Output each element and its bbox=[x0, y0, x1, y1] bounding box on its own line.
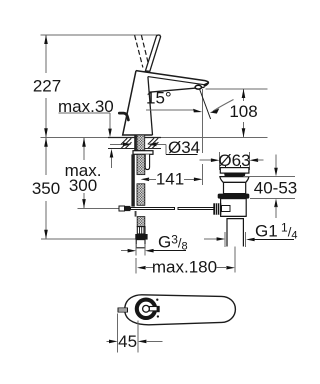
plug dark seal band bbox=[224, 173, 246, 177]
wire: 15° stream line bbox=[200, 89, 211, 119]
dimension hole Ø34 arrows at counter bbox=[110, 143, 125, 145]
svg-text:300: 300 bbox=[69, 176, 97, 195]
svg-text:G1 1/4: G1 1/4 bbox=[255, 221, 297, 242]
svg-text:227: 227 bbox=[33, 77, 61, 96]
dimension 227 vertical line bbox=[45, 35, 47, 138]
hub dots bbox=[156, 299, 158, 301]
svg-text:350: 350 bbox=[32, 179, 60, 198]
drain lower body bbox=[221, 199, 247, 217]
dimension 40-53 bbox=[244, 175, 296, 177]
svg-text:141: 141 bbox=[156, 170, 184, 189]
drain flange neck bbox=[220, 177, 249, 183]
drain O-ring bbox=[218, 194, 250, 199]
pop-up rod linkage connector bbox=[119, 206, 125, 211]
arrow: counter bottom (max.30) bbox=[111, 151, 113, 168]
leader arc to stream line bbox=[213, 100, 234, 112]
counter slab hatching right bbox=[148, 138, 159, 148]
handle hub ring bbox=[137, 300, 155, 318]
rod to drain connector box bbox=[221, 205, 230, 211]
washer under counter bbox=[133, 151, 153, 155]
aerator at spout tip bbox=[204, 82, 209, 86]
pull rod upper segment bbox=[134, 135, 136, 151]
dimension Ø63 bbox=[219, 152, 221, 170]
counter slab hatching left bbox=[121, 138, 132, 148]
lever handle (solid position) bbox=[145, 35, 160, 71]
drain pop-up plug cap bbox=[220, 168, 249, 174]
set screw stub bbox=[118, 308, 128, 312]
svg-text:15°: 15° bbox=[146, 89, 172, 108]
drain tailpipe bbox=[227, 219, 243, 247]
wire: vertical reference line below spout bbox=[202, 89, 204, 153]
drain upper body bbox=[224, 182, 246, 193]
dimension max.180 bbox=[135, 258, 137, 274]
wire: drain centerline lower bbox=[234, 247, 236, 273]
faucet body outline bbox=[123, 71, 209, 135]
svg-text:max.180: max.180 bbox=[152, 258, 217, 277]
handle pin bbox=[149, 307, 157, 311]
svg-text:G3/8: G3/8 bbox=[158, 233, 188, 253]
wire: 350 bottom extension line bbox=[41, 238, 135, 240]
dimension 227 arrows bbox=[44, 35, 48, 44]
node: counter top surface line bbox=[41, 137, 268, 139]
pop-up rod left segment bbox=[130, 207, 174, 209]
dimension 45 bbox=[117, 314, 119, 353]
threaded shank braid above washer bbox=[137, 135, 145, 151]
svg-text:108: 108 bbox=[229, 102, 257, 121]
dimension 350 vertical line bbox=[45, 138, 47, 240]
hose end nut bbox=[135, 234, 147, 240]
pull rod (dark vertical) bbox=[131, 154, 134, 206]
flexible hose segment B bbox=[137, 154, 145, 174]
flexible hose segment D bbox=[137, 217, 145, 227]
dimension max.300 vertical line bbox=[83, 138, 85, 209]
wire: top extension line from 227 dim to handle tip bbox=[41, 34, 161, 36]
flexible hose segment C bbox=[137, 184, 145, 206]
hose end tube G3/8 bbox=[136, 240, 145, 248]
hose crimp fitting bbox=[137, 227, 145, 234]
handle hub inner circle bbox=[143, 305, 150, 312]
svg-text:45: 45 bbox=[118, 332, 137, 351]
link to hose bbox=[135, 211, 137, 217]
svg-text:40-53: 40-53 bbox=[254, 179, 297, 198]
dimension 141 bbox=[141, 178, 150, 182]
label G1 1/4 with arrows bbox=[204, 238, 217, 240]
counter slab bottom line bbox=[108, 148, 161, 150]
lever handle dashed alternate position bbox=[135, 35, 149, 67]
dimension max.300 arrows bbox=[82, 138, 86, 147]
handle top view outline bbox=[125, 295, 236, 325]
dimension 350 arrows bbox=[44, 138, 48, 147]
wire: extension line at pop-up rod level bbox=[78, 207, 120, 209]
pop-up rod right segment bbox=[178, 207, 215, 209]
knurled knob on rod bbox=[213, 203, 221, 214]
pull-rod knob hook at body left bbox=[119, 113, 128, 120]
label G3/8 with arrows bbox=[121, 250, 129, 252]
dimension 108 bbox=[206, 88, 268, 90]
mounting stud right of hose bbox=[145, 154, 149, 169]
